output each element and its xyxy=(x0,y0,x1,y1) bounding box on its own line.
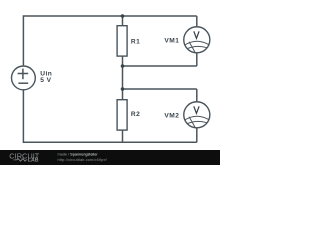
svg-text:R2: R2 xyxy=(131,111,140,118)
svg-text:VM2: VM2 xyxy=(164,113,179,120)
svg-text:LAB: LAB xyxy=(28,158,39,164)
svg-text:R1: R1 xyxy=(131,38,140,45)
svg-text:made / Spannungsteiler: made / Spannungsteiler xyxy=(58,153,99,157)
svg-text:5 V: 5 V xyxy=(40,77,51,84)
svg-text:VM1: VM1 xyxy=(164,38,179,45)
svg-text:http://circuitlab.com/c69pxf: http://circuitlab.com/c69pxf xyxy=(58,158,108,162)
